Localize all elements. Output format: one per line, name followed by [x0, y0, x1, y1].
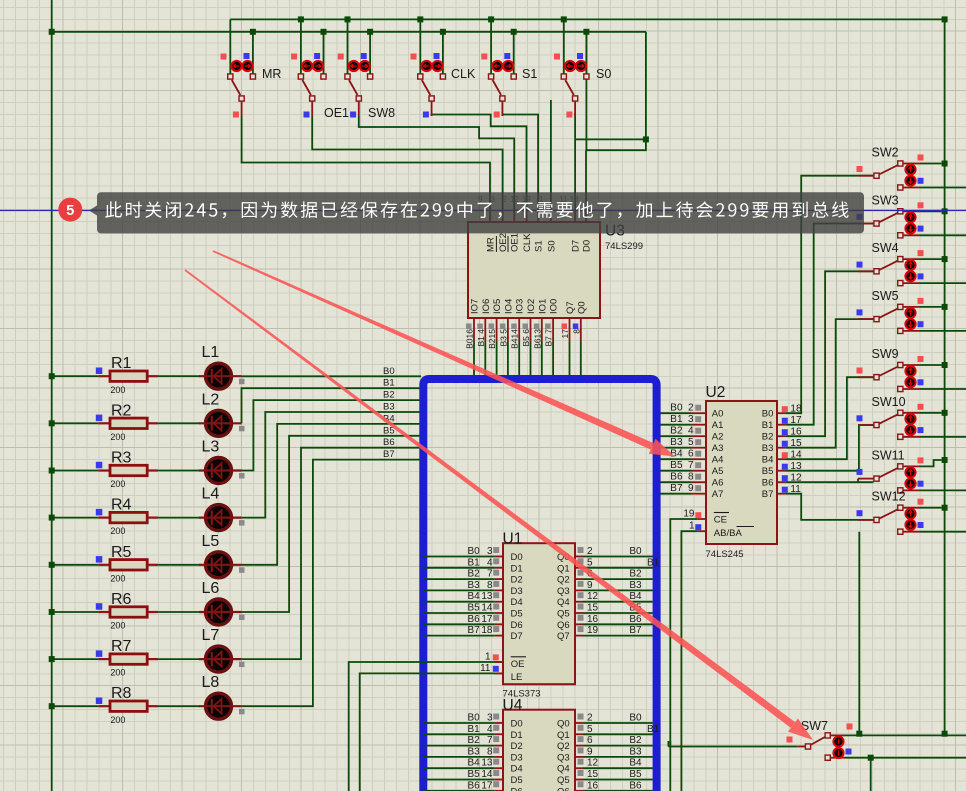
svg-text:B6: B6 [670, 472, 683, 483]
resistor R2 [52, 422, 98, 424]
wire S0 right pin drop [585, 32, 587, 76]
U3 top pin D7 (pin 11) [574, 212, 576, 222]
svg-text:Q1: Q1 [557, 563, 570, 574]
U1 left pin D4 net B4 [424, 601, 495, 603]
svg-text:8: 8 [487, 580, 493, 591]
U4 left pin D3 net B3 [424, 756, 495, 758]
wire net B2 from L3 to bus [242, 400, 421, 470]
U3 bottom pin IO1 net B613 [541, 318, 543, 342]
svg-text:D0: D0 [582, 240, 593, 252]
wire S1 left pin drop [490, 19, 492, 75]
SW5 state squares [918, 298, 924, 304]
U2 left pin A2 net B2 (pin 4) [661, 435, 692, 437]
U4 left pin D0 net B0 [424, 722, 495, 724]
svg-text:B5: B5 [670, 460, 683, 471]
svg-text:9: 9 [587, 746, 593, 757]
wire CLK right pin drop [442, 32, 444, 76]
CLK state squares [411, 54, 417, 60]
U4 right pin Q5 (pin 15) [575, 779, 583, 781]
svg-text:A1: A1 [712, 420, 724, 431]
svg-text:AB/BA: AB/BA [714, 528, 743, 539]
junction dots on top nets [298, 16, 304, 22]
U3 top pin OE1 (pin 2) [513, 212, 515, 222]
svg-text:74LS245: 74LS245 [706, 549, 744, 560]
L8 cathode terminal square [239, 709, 245, 715]
LED L3 [206, 458, 232, 484]
svg-text:A6: A6 [712, 478, 724, 489]
svg-text:2: 2 [587, 546, 593, 557]
junction at (646,139) [643, 136, 649, 142]
LED L2 [206, 410, 232, 436]
tooltip step number circle 5 [58, 198, 82, 222]
svg-text:7: 7 [688, 460, 694, 471]
svg-text:SW11: SW11 [872, 448, 905, 462]
svg-text:CE: CE [714, 515, 727, 526]
svg-text:17: 17 [481, 780, 493, 791]
U1 left pin D2 net B2 [424, 578, 495, 580]
resistor R1 [52, 375, 98, 377]
svg-text:L4: L4 [202, 486, 220, 503]
wire net B0 from L1 to bus [242, 375, 421, 377]
wire top horizontal net A (y=19) [230, 18, 944, 20]
switch SW4 [903, 258, 920, 260]
svg-text:R1: R1 [111, 355, 132, 372]
switch SW8 [349, 80, 358, 95]
U3 bottom pin IO0 net B7 7 [552, 318, 554, 342]
svg-text:R4: R4 [111, 497, 132, 514]
U1 right pin Q2 (pin 6) [575, 578, 583, 580]
U3 top pin S1 (pin 19) [537, 212, 539, 222]
svg-text:B7: B7 [629, 625, 642, 636]
U4 right pin Q0 (pin 2) [575, 722, 583, 724]
LED L6 [206, 599, 232, 625]
wire y=32 rail corner down at x=646 [645, 32, 647, 140]
U1 right pin Q6 (pin 16) [575, 623, 583, 625]
svg-text:B1: B1 [647, 724, 660, 735]
svg-text:B1: B1 [647, 557, 660, 568]
svg-text:R8: R8 [111, 685, 132, 702]
svg-text:B2: B2 [383, 390, 395, 401]
svg-text:R2: R2 [111, 402, 132, 419]
U2 right pin B4 (pin 14) [777, 458, 785, 460]
svg-text:5: 5 [587, 557, 593, 568]
svg-text:B5: B5 [629, 769, 642, 780]
SW9 state squares [918, 356, 924, 362]
svg-text:9: 9 [688, 483, 694, 494]
L4 cathode terminal square [239, 520, 245, 526]
wire R2 to L2 [158, 422, 200, 424]
svg-text:Q3: Q3 [557, 586, 570, 597]
U2 left pin A0 net B0 (pin 2) [661, 412, 692, 414]
wire SW11 common jog [857, 479, 859, 483]
U3 bottom pin Q7 net 17 [569, 318, 571, 342]
switch CLK [422, 80, 431, 95]
U2 left pin A5 net B5 (pin 7) [661, 470, 692, 472]
svg-text:4: 4 [487, 557, 493, 568]
U1 right pin Q5 (pin 15) [575, 612, 583, 614]
wire to U3 S0 pin [550, 100, 552, 212]
svg-text:MR: MR [486, 237, 497, 252]
svg-text:SW5: SW5 [872, 289, 899, 303]
svg-text:200: 200 [110, 385, 125, 395]
svg-text:MR: MR [262, 67, 281, 81]
wire MR right pin drop [252, 32, 254, 76]
R5 state square [96, 556, 103, 563]
svg-text:Q6: Q6 [557, 620, 570, 631]
svg-text:12: 12 [587, 591, 599, 602]
wire top horizontal net B (y=32) [52, 31, 646, 33]
op-amp U1 74LS373 body [503, 543, 575, 684]
U1 left pin D5 net B5 [424, 612, 495, 614]
wire to U3 D0 pin [585, 150, 587, 212]
svg-text:B414: B414 [510, 329, 520, 349]
svg-text:B4: B4 [629, 758, 642, 769]
R6 state square [96, 603, 103, 610]
svg-text:B2: B2 [670, 426, 683, 437]
svg-text:13: 13 [481, 591, 493, 602]
U3 bottom pin IO6 net B1 4 [484, 318, 486, 342]
resistor R8 [52, 705, 98, 707]
svg-text:B1: B1 [468, 557, 481, 568]
svg-text:CLK: CLK [451, 67, 476, 81]
U4 right pin Q6 (pin 16) [575, 790, 583, 791]
switch SW11 [903, 465, 920, 467]
resistor R6 [52, 611, 98, 613]
wire net B6 from L7 to bus [242, 448, 421, 659]
svg-text:2: 2 [688, 403, 694, 414]
LED L7 [206, 646, 232, 672]
wire SW7 upper pin to right [845, 734, 966, 736]
svg-text:B3: B3 [629, 580, 642, 591]
U2 right pin B5 (pin 13) [777, 470, 785, 472]
U3 top pin S0 (pin 1) [550, 212, 552, 222]
svg-text:B5: B5 [468, 603, 481, 614]
wire R4 to L4 [158, 517, 200, 519]
resistor R7 [52, 658, 98, 660]
U2 right pin B2 (pin 16) [777, 435, 785, 437]
switch SW3 [903, 210, 920, 212]
wire net B1 from L2 to bus [242, 388, 422, 423]
svg-text:IO5: IO5 [492, 299, 503, 314]
svg-text:Q6: Q6 [557, 786, 570, 791]
svg-text:B3: B3 [468, 746, 481, 757]
wire SW7 lower pin to right edge [845, 757, 966, 759]
S0 state squares [554, 54, 560, 60]
wire R5 to L5 [158, 564, 200, 566]
U3 top pin D0 (pin 18) [585, 212, 587, 222]
svg-text:B0: B0 [383, 366, 395, 377]
LED L5 [206, 552, 232, 578]
svg-text:R7: R7 [111, 638, 132, 655]
svg-text:B1 4: B1 4 [476, 329, 486, 347]
svg-text:D3: D3 [511, 752, 523, 763]
svg-text:OE1: OE1 [324, 106, 349, 120]
wire from SW12 lower net down to SW7 junction [858, 532, 860, 734]
annotation arrow to U2 B4/B5 pins [213, 250, 654, 449]
U2 left pin A1 net B1 (pin 3) [661, 424, 692, 426]
svg-text:15: 15 [587, 603, 599, 614]
svg-text:Q0: Q0 [557, 719, 570, 730]
wire R3 to L3 [158, 470, 200, 472]
annotation arrow to SW7 [185, 269, 796, 728]
svg-text:1: 1 [689, 521, 695, 532]
wire U2 B7 to SW12 [785, 494, 874, 520]
svg-text:B7: B7 [670, 483, 683, 494]
svg-text:19: 19 [683, 509, 695, 520]
svg-text:200: 200 [110, 621, 125, 631]
svg-text:11: 11 [480, 663, 491, 674]
svg-text:B5: B5 [762, 466, 774, 477]
svg-text:B0: B0 [762, 409, 774, 420]
svg-text:Q4: Q4 [557, 764, 570, 775]
svg-text:7: 7 [487, 569, 493, 580]
svg-text:B6: B6 [629, 614, 642, 625]
svg-text:R3: R3 [111, 450, 132, 467]
wire MR left pin drop [229, 19, 231, 75]
U2 left pin A7 net B7 (pin 9) [661, 493, 692, 495]
L7 cathode terminal square [239, 662, 245, 668]
svg-text:B2: B2 [629, 569, 642, 580]
SW12 state squares [918, 499, 924, 505]
wire CLK left pin drop [419, 19, 421, 75]
wire S1 right pin drop [513, 32, 515, 76]
wire U2 B1 to SW3 [785, 224, 874, 425]
svg-text:U2: U2 [706, 384, 726, 401]
svg-text:L2: L2 [202, 391, 220, 408]
svg-text:17: 17 [560, 329, 570, 339]
svg-text:Q0: Q0 [576, 301, 587, 314]
U1 left pin D7 net B7 [424, 635, 495, 637]
svg-text:5: 5 [688, 437, 694, 448]
blue marker line [0, 210, 966, 212]
U2 right pin B0 (pin 18) [777, 412, 785, 414]
op-amp U3 74LS299 body [468, 222, 600, 318]
wire S1 switch to U3 S1 pin [502, 113, 538, 212]
svg-text:B3: B3 [629, 746, 642, 757]
U4 left pin D2 net B2 [424, 745, 495, 747]
U3 bottom pin IO7 net B016 [473, 318, 475, 342]
L3 cathode terminal square [239, 473, 245, 479]
U3 top pin CLK (pin 12) [526, 212, 528, 222]
U4 right pin Q2 (pin 6) [575, 745, 583, 747]
switch S1 [493, 80, 502, 95]
svg-text:B1: B1 [383, 378, 395, 389]
svg-text:R6: R6 [111, 591, 132, 608]
LED L8 [206, 693, 232, 719]
svg-text:B6: B6 [762, 478, 774, 489]
U1 right pin Q0 (pin 2) [575, 556, 583, 558]
svg-text:3: 3 [688, 414, 694, 425]
svg-text:B3 5: B3 5 [498, 329, 508, 347]
wire OE1 right pin drop [323, 32, 325, 76]
wire R7 to L7 [158, 658, 200, 660]
svg-text:A7: A7 [712, 489, 724, 500]
svg-text:R5: R5 [111, 544, 132, 561]
svg-text:5: 5 [587, 724, 593, 735]
SW4 state squares [918, 250, 924, 256]
svg-text:200: 200 [110, 526, 125, 536]
wire S0 left pin drop [563, 19, 565, 75]
svg-text:B7: B7 [762, 489, 774, 500]
svg-text:SW2: SW2 [872, 146, 899, 160]
svg-text:B3: B3 [383, 402, 395, 413]
wire link y=150/y=139 horizontals [575, 139, 646, 150]
svg-text:Q7: Q7 [565, 301, 576, 314]
R2 state square [96, 415, 103, 422]
wire net B5 from L6 to bus [242, 436, 421, 612]
svg-text:14: 14 [481, 769, 493, 780]
svg-text:5: 5 [66, 203, 74, 219]
wire R6 to L6 [158, 611, 200, 613]
svg-text:2: 2 [587, 713, 593, 724]
svg-text:LE: LE [511, 672, 523, 683]
wire U2 B5 to SW10 [785, 425, 874, 471]
svg-text:S1: S1 [522, 67, 537, 81]
svg-text:14: 14 [481, 603, 493, 614]
svg-text:7: 7 [487, 735, 493, 746]
svg-text:15: 15 [587, 769, 599, 780]
switch MR [232, 80, 241, 95]
junction left rail row 8 [49, 703, 55, 709]
svg-text:SW8: SW8 [368, 106, 395, 120]
U3 bottom pin Q0 net 8 [580, 318, 582, 342]
switch SW12 [903, 507, 920, 509]
svg-text:200: 200 [110, 715, 125, 725]
op-amp U4 74LS373 body [503, 710, 575, 791]
svg-text:S0: S0 [546, 240, 557, 252]
svg-text:17: 17 [481, 614, 493, 625]
SW10 state squares [918, 404, 924, 410]
svg-text:D7: D7 [571, 240, 582, 252]
resistor R4 [52, 517, 98, 519]
U1 left pin D0 net B0 [424, 556, 495, 558]
svg-text:B0: B0 [670, 403, 683, 414]
U1 left pin D6 net B6 [424, 623, 495, 625]
svg-text:8: 8 [688, 472, 694, 483]
U2 CE pin (pin 19) [698, 518, 706, 520]
svg-text:B0: B0 [629, 546, 642, 557]
R1 state square [96, 368, 103, 375]
svg-text:8: 8 [571, 329, 581, 334]
svg-text:B2: B2 [762, 432, 774, 443]
wire net B3 from L4 to bus [242, 412, 421, 518]
svg-text:B2: B2 [468, 735, 481, 746]
OE1 state squares [291, 54, 297, 60]
SW7 state squares [847, 724, 853, 730]
U2 right pin B6 (pin 12) [777, 481, 785, 483]
svg-text:B5: B5 [468, 769, 481, 780]
U2 right pin B1 (pin 17) [777, 424, 785, 426]
svg-text:B1: B1 [762, 420, 774, 431]
svg-text:B2: B2 [468, 569, 481, 580]
svg-text:IO6: IO6 [481, 299, 492, 314]
MR state squares [221, 54, 227, 60]
U1 left pin D3 net B3 [424, 589, 495, 591]
svg-text:B7 7: B7 7 [544, 329, 554, 347]
svg-text:IO0: IO0 [549, 299, 560, 314]
U2 left pin A6 net B6 (pin 8) [661, 481, 692, 483]
tooltip annotation bar [89, 206, 97, 216]
svg-text:B6: B6 [468, 614, 481, 625]
switch SW2 [903, 163, 920, 165]
resistor R5 [52, 564, 98, 566]
svg-text:D2: D2 [511, 575, 523, 586]
svg-text:6: 6 [587, 735, 593, 746]
svg-text:SW10: SW10 [872, 395, 906, 409]
svg-text:D1: D1 [511, 730, 523, 741]
tooltip text [105, 201, 122, 217]
junction left rail row 7 [49, 656, 55, 662]
svg-text:B0: B0 [468, 713, 481, 724]
SW8 state squares [338, 54, 344, 60]
svg-text:16: 16 [587, 780, 599, 791]
svg-text:IO7: IO7 [470, 299, 481, 314]
svg-text:B3: B3 [762, 443, 774, 454]
S1 state squares [481, 54, 487, 60]
wire U1 OE to bottom [349, 662, 503, 791]
wire junction down from SW7 lower [870, 758, 872, 791]
svg-text:IO1: IO1 [537, 299, 548, 314]
wire R8 to L8 [158, 705, 200, 707]
bus wire (blue) main data bus [423, 379, 656, 791]
R8 state square [96, 698, 103, 705]
wire U2 AB/BA down [681, 531, 697, 791]
svg-text:3: 3 [487, 546, 493, 557]
svg-text:OE: OE [511, 659, 525, 670]
LED L1 [206, 363, 232, 389]
svg-text:D6: D6 [511, 620, 523, 631]
wire CLK switch to U3 CLK pin [432, 115, 527, 213]
svg-text:Q5: Q5 [557, 775, 570, 786]
R4 state square [96, 509, 103, 516]
U4 left pin D5 net B5 [424, 779, 495, 781]
svg-text:IO4: IO4 [503, 299, 514, 314]
svg-text:Q2: Q2 [557, 741, 570, 752]
svg-text:13: 13 [481, 758, 493, 769]
svg-text:OE2: OE2 [498, 233, 509, 252]
svg-text:4: 4 [487, 724, 493, 735]
wire U2 B4 to SW9 [785, 377, 874, 459]
U4 right pin Q1 (pin 5) [575, 733, 583, 735]
wire SW8 right pin drop [369, 32, 371, 76]
svg-text:B3: B3 [468, 580, 481, 591]
switch SW10 [903, 412, 920, 414]
svg-text:D7: D7 [511, 631, 523, 642]
U2 AB/BA pin (pin 1) [698, 530, 706, 532]
junction left rail row 6 [49, 609, 55, 615]
svg-text:200: 200 [110, 432, 125, 442]
wire OE1 switch to U3 OE2 pin [312, 116, 502, 212]
U1 right pin Q3 (pin 9) [575, 589, 583, 591]
svg-text:Q2: Q2 [557, 575, 570, 586]
wire SW7 common from U2 CE net [668, 746, 797, 748]
svg-text:L1: L1 [202, 344, 220, 361]
svg-text:B3: B3 [670, 437, 683, 448]
op-amp U2 74LS245 body [706, 401, 777, 544]
U1 right pin Q4 (pin 12) [575, 601, 583, 603]
wire SW8 left pin drop [347, 19, 349, 75]
wire U2 B0 to SW2 [785, 176, 874, 414]
svg-text:Q3: Q3 [557, 752, 570, 763]
svg-text:D6: D6 [511, 786, 523, 791]
svg-text:SW3: SW3 [872, 193, 899, 207]
svg-text:B4: B4 [468, 591, 481, 602]
U4 right pin Q3 (pin 9) [575, 756, 583, 758]
U4 left pin D1 net B1 [424, 733, 495, 735]
svg-text:18: 18 [481, 625, 493, 636]
svg-text:A0: A0 [712, 409, 724, 420]
switch S0 [565, 80, 574, 95]
